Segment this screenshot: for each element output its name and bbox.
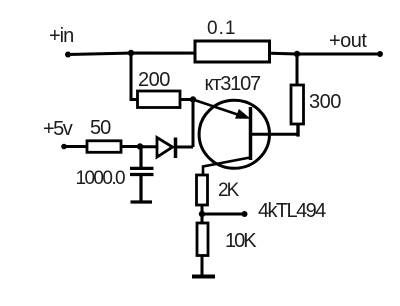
wire R200 to node B: [181, 98, 193, 101]
wire node B down to diode cathode: [192, 100, 195, 148]
wire node D to diode anode: [140, 145, 157, 148]
wire R10K bottom to ground: [201, 256, 204, 275]
svg-text:4kTL494: 4kTL494: [258, 200, 326, 222]
wire top rail from +in to +out: [68, 53, 380, 55]
wire diode cathode to node B branch: [176, 146, 194, 149]
node TL494 pin dot: [242, 211, 248, 217]
wire R300 top to +out rail: [296, 54, 299, 84]
node D junction dot: [137, 143, 143, 149]
diode D1 cathode bar: [174, 138, 178, 159]
node +5v terminal dot: [61, 144, 67, 150]
node B junction dot: [190, 96, 196, 102]
wire R50 to node D: [122, 145, 140, 148]
svg-text:0.1: 0.1: [207, 18, 236, 39]
resistor R 50: [87, 141, 121, 153]
svg-text:200: 200: [138, 69, 170, 91]
wire from junction A down to R200: [131, 53, 137, 100]
node junction C (top-right): [294, 51, 300, 57]
svg-text:1000.0: 1000.0: [76, 168, 126, 189]
svg-text:+5v: +5v: [43, 118, 73, 140]
resistor R 300: [291, 85, 304, 124]
ground G2 bar: [192, 275, 215, 279]
svg-text:кт3107: кт3107: [205, 73, 262, 95]
node +out terminal dot: [377, 51, 383, 57]
svg-text:300: 300: [309, 91, 341, 113]
svg-text:2K: 2K: [218, 180, 240, 201]
capacitor C1 1000.0 top lead: [139, 147, 142, 168]
diode D1 triangle: [157, 138, 173, 158]
wire capacitor to ground: [139, 175, 142, 202]
resistor R 200: [138, 91, 181, 108]
resistor R 2K: [197, 175, 208, 205]
resistor R 10K: [197, 223, 208, 256]
node junction A (top-left): [128, 50, 134, 56]
wire base lead to R300: [251, 133, 300, 136]
ground G1 bar: [131, 200, 153, 203]
svg-text:50: 50: [90, 117, 111, 139]
svg-text:+out: +out: [329, 30, 367, 52]
transistor Q1 base bar: [249, 107, 253, 160]
wire +5v to R50: [64, 145, 86, 148]
resistor R 0.1: [195, 41, 270, 62]
node +in terminal dot: [65, 52, 71, 58]
wire node E to TL494 pin: [202, 213, 244, 216]
transistor Q1 circle: [199, 100, 269, 168]
capacitor C1 top plate: [130, 167, 154, 170]
transistor Q1 collector lead: [203, 158, 250, 175]
svg-text:+in: +in: [49, 25, 73, 47]
node E junction dot: [199, 211, 205, 217]
wire R2K bottom to node E: [201, 206, 204, 222]
capacitor C1 bottom plate: [130, 173, 154, 176]
transistor Q1 кт3107 emitter lead with arrow: [193, 100, 251, 119]
svg-text:10K: 10K: [225, 230, 257, 252]
